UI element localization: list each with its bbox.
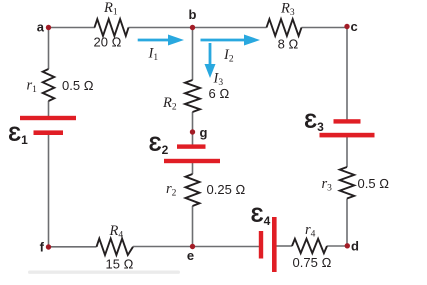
svg-text:b: b xyxy=(189,7,197,22)
battery E4 short plate (vertical) xyxy=(259,231,263,259)
svg-text:r4: r4 xyxy=(305,222,316,240)
wire R4 through node e to battery E4 left plate xyxy=(133,246,259,248)
svg-text:I1: I1 xyxy=(148,46,159,64)
svg-text:8 Ω: 8 Ω xyxy=(278,37,299,52)
wire r2 down to e xyxy=(192,206,194,247)
svg-text:R3: R3 xyxy=(280,1,295,19)
svg-text:e: e xyxy=(187,248,194,263)
svg-text:r2: r2 xyxy=(166,181,177,199)
wire r1 to battery E1 top plate xyxy=(48,101,50,117)
resistor r3 xyxy=(340,167,354,199)
svg-text:0.5 Ω: 0.5 Ω xyxy=(358,176,390,191)
battery E2 long plate xyxy=(164,159,220,163)
svg-text:Ɛ2: Ɛ2 xyxy=(149,133,169,157)
resistor r4 xyxy=(292,239,327,253)
svg-text:Ɛ1: Ɛ1 xyxy=(8,123,28,147)
node f dot xyxy=(46,244,51,249)
battery E3 short plate xyxy=(334,119,361,123)
battery E1 short plate xyxy=(34,130,64,135)
resistor r2 xyxy=(186,174,200,206)
resistor R1 xyxy=(95,19,129,36)
node d dot xyxy=(345,243,350,248)
wire c down to battery E3 top plate xyxy=(346,28,348,121)
svg-text:R1: R1 xyxy=(103,0,118,18)
svg-text:f: f xyxy=(40,240,45,255)
wire f to R4 (bottom left) xyxy=(48,246,97,248)
wire a to R1 (top left) xyxy=(48,27,95,29)
svg-text:0.25 Ω: 0.25 Ω xyxy=(207,182,246,197)
svg-text:0.75 Ω: 0.75 Ω xyxy=(293,255,332,270)
svg-text:r1: r1 xyxy=(27,78,38,96)
wire R1 to R3 (top middle through node b) xyxy=(129,27,267,29)
svg-text:Ɛ4: Ɛ4 xyxy=(251,204,271,228)
wire r4 to d (bottom right) xyxy=(327,245,347,247)
wire battery E4 right plate to r4 xyxy=(277,245,293,247)
node a dot xyxy=(46,25,51,30)
svg-text:6 Ω: 6 Ω xyxy=(209,86,230,101)
svg-text:I2: I2 xyxy=(223,47,234,65)
node c dot xyxy=(344,24,349,29)
svg-text:I3: I3 xyxy=(213,71,224,89)
node e dot xyxy=(190,244,195,249)
resistor R2 xyxy=(185,80,200,112)
svg-text:Ɛ3: Ɛ3 xyxy=(304,110,324,134)
wire b down to R2 xyxy=(192,28,194,81)
wire battery E1 bottom plate down to f xyxy=(48,134,50,247)
resistor r1 xyxy=(43,69,55,101)
wire battery E3 bottom plate to r3 xyxy=(346,137,348,168)
node g dot xyxy=(190,129,195,134)
current arrow I3 xyxy=(205,43,216,78)
wire R3 to c (top right) xyxy=(302,27,348,29)
wire r3 down to d xyxy=(346,199,348,247)
current arrow I2 xyxy=(201,35,261,46)
svg-text:R2: R2 xyxy=(162,95,177,113)
wire a down to r1 xyxy=(48,28,50,70)
faint artifact streak (bottom left) xyxy=(28,271,180,274)
svg-text:r3: r3 xyxy=(322,176,333,194)
current arrow I1 xyxy=(138,35,184,46)
svg-text:20 Ω: 20 Ω xyxy=(93,35,121,50)
battery E3 long plate xyxy=(320,133,375,138)
wire R2 through node g to battery E2 top plate xyxy=(192,112,194,145)
battery E2 short plate xyxy=(177,144,206,148)
svg-text:0.5 Ω: 0.5 Ω xyxy=(62,78,94,93)
resistor R3 xyxy=(267,19,302,36)
resistor R4 xyxy=(97,239,134,255)
svg-text:c: c xyxy=(351,19,358,34)
battery E1 long plate xyxy=(20,116,76,120)
wire battery E2 bottom plate to r2 xyxy=(192,162,194,174)
svg-text:d: d xyxy=(351,239,359,254)
svg-text:a: a xyxy=(37,20,45,35)
svg-text:g: g xyxy=(200,125,208,140)
svg-text:15 Ω: 15 Ω xyxy=(105,257,133,272)
node b dot xyxy=(190,25,195,30)
svg-text:R4: R4 xyxy=(109,223,124,241)
battery E4 long plate (vertical) xyxy=(272,217,277,272)
